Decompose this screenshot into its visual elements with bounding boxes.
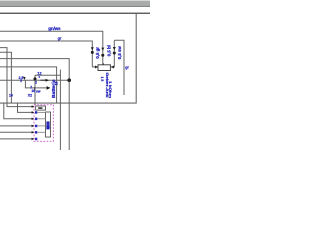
svg-text:gr: gr: [58, 37, 62, 41]
svg-text:0,5 gr: 0,5 gr: [95, 47, 100, 59]
svg-text:0,5 bl: 0,5 bl: [106, 45, 111, 56]
svg-text:2: 2: [35, 81, 37, 85]
svg-text:12: 12: [37, 70, 42, 75]
svg-text:M: M: [46, 126, 51, 130]
svg-text:gr: gr: [125, 65, 129, 69]
svg-text:sw: sw: [36, 89, 41, 93]
svg-text:1 5: 1 5: [100, 77, 104, 82]
svg-text:gn/ws: gn/ws: [48, 26, 61, 31]
svg-text:X2: X2: [28, 93, 32, 97]
svg-text:Batterie: Batterie: [51, 79, 56, 98]
svg-text:1 kOhm: 1 kOhm: [108, 81, 112, 99]
svg-text:14: 14: [9, 93, 13, 97]
svg-text:0,5 sw: 0,5 sw: [117, 46, 122, 60]
svg-text:2: 2: [20, 79, 22, 83]
